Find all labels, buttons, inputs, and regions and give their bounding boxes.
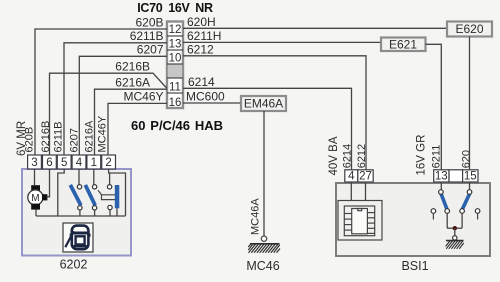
svg-text:6216A: 6216A — [115, 76, 150, 90]
svg-text:620B: 620B — [135, 16, 163, 30]
IC U1 inside BSI1 — [338, 182, 382, 240]
svg-text:MC46: MC46 — [246, 259, 279, 273]
svg-text:IC70 16V NR: IC70 16V NR — [137, 1, 213, 15]
svg-text:40V BA: 40V BA — [328, 136, 340, 175]
svg-text:6212: 6212 — [356, 144, 368, 168]
svg-text:6214: 6214 — [341, 144, 353, 168]
wire pin2 to bus — [109, 169, 126, 216]
svg-text:EM46A: EM46A — [244, 97, 283, 111]
svg-text:13: 13 — [169, 39, 182, 51]
svg-text:5: 5 — [61, 157, 67, 169]
wire MC600 to EM46A — [183, 102, 241, 104]
svg-text:MC46Y: MC46Y — [123, 90, 163, 104]
wire 6211 from E621 to BSI1 pin 13 — [426, 44, 442, 170]
pin 27 — [358, 170, 373, 183]
connector IC70 strip — [167, 22, 183, 109]
svg-text:6214: 6214 — [188, 75, 215, 89]
node E621 — [381, 38, 426, 52]
wire 620 from E620 to BSI1 pin 15 — [469, 37, 471, 171]
motor M1 — [28, 169, 48, 216]
wire 6211H to E621 — [183, 41, 381, 43]
switch S2 — [85, 169, 97, 216]
pin 1 — [87, 155, 101, 169]
pin 4 — [345, 170, 358, 183]
svg-text:620B: 620B — [24, 127, 36, 153]
pin 6 — [43, 155, 57, 169]
ground MC46 — [246, 236, 280, 273]
svg-text:BSI1: BSI1 — [401, 259, 428, 273]
svg-text:E620: E620 — [455, 22, 483, 36]
svg-text:6212: 6212 — [187, 43, 214, 57]
svg-text:16: 16 — [169, 97, 182, 109]
svg-text:6216A: 6216A — [84, 120, 96, 152]
svg-text:15: 15 — [464, 171, 477, 183]
wire 6216A — [95, 89, 168, 155]
svg-text:6: 6 — [46, 157, 52, 169]
svg-text:16V GR: 16V GR — [416, 135, 428, 176]
wire 620B — [35, 29, 167, 155]
pin 5 — [57, 155, 71, 169]
ECU BSI1 — [336, 183, 490, 273]
wire pin5 to bus — [58, 169, 64, 216]
wire 6207 — [79, 56, 167, 155]
svg-text:10: 10 — [169, 53, 182, 65]
wire 6211B — [64, 43, 167, 155]
svg-text:6202: 6202 — [60, 258, 88, 272]
svg-text:6211B: 6211B — [130, 29, 164, 43]
svg-text:MC46A: MC46A — [250, 198, 262, 235]
ground in BSI1 — [446, 241, 464, 249]
wire bottom bus — [36, 215, 126, 217]
svg-text:27: 27 — [359, 171, 372, 183]
svg-text:6211: 6211 — [431, 145, 443, 169]
node E620 — [447, 22, 492, 37]
svg-text:4: 4 — [348, 171, 355, 183]
blank pin cell — [449, 170, 463, 182]
svg-text:6207: 6207 — [69, 128, 81, 152]
wire 6212 to BSI1 pin 27 — [183, 56, 366, 170]
svg-text:620: 620 — [460, 150, 472, 168]
svg-text:MC600: MC600 — [186, 90, 225, 104]
node EM46A — [241, 96, 286, 111]
wire pin6 to motor brush — [47, 169, 50, 197]
svg-text:M: M — [31, 193, 39, 204]
pin 3 — [28, 155, 42, 169]
svg-text:3: 3 — [31, 157, 37, 169]
wire MC46A from EM46A to ground MC46 — [263, 111, 265, 236]
svg-text:60 P/C/46 HAB: 60 P/C/46 HAB — [131, 118, 223, 133]
svg-text:E621: E621 — [389, 38, 417, 52]
svg-text:6216B: 6216B — [115, 60, 150, 74]
svg-text:6211H: 6211H — [187, 29, 221, 43]
pin 2 — [102, 155, 116, 169]
svg-text:1: 1 — [91, 157, 97, 169]
svg-text:12: 12 — [169, 24, 182, 36]
switch S5 in BSI1 — [460, 182, 480, 228]
svg-text:4: 4 — [76, 157, 83, 169]
pin 4 — [72, 155, 86, 169]
svg-text:13: 13 — [435, 171, 448, 183]
pin 15 — [463, 170, 478, 183]
wire 6216B — [50, 73, 167, 155]
wire MC46Y — [108, 103, 167, 155]
pin 13 — [434, 170, 449, 183]
svg-text:2: 2 — [105, 157, 111, 169]
svg-text:6211B: 6211B — [53, 122, 65, 153]
junction node — [447, 226, 462, 240]
changeover contact S3 — [98, 173, 119, 216]
svg-text:MC46Y: MC46Y — [97, 115, 109, 152]
svg-text:620H: 620H — [187, 15, 216, 29]
switch S1 — [70, 169, 82, 216]
wire 620H to E620 — [183, 27, 447, 29]
switch S4 in BSI1 — [431, 182, 449, 228]
component 6202 lock motor unit — [22, 169, 131, 272]
svg-text:6207: 6207 — [137, 43, 164, 57]
svg-text:6216B: 6216B — [40, 121, 52, 153]
svg-text:11: 11 — [169, 82, 181, 94]
wire 6214 to BSI1 pin 4 — [183, 88, 352, 170]
car icon box — [63, 223, 93, 252]
